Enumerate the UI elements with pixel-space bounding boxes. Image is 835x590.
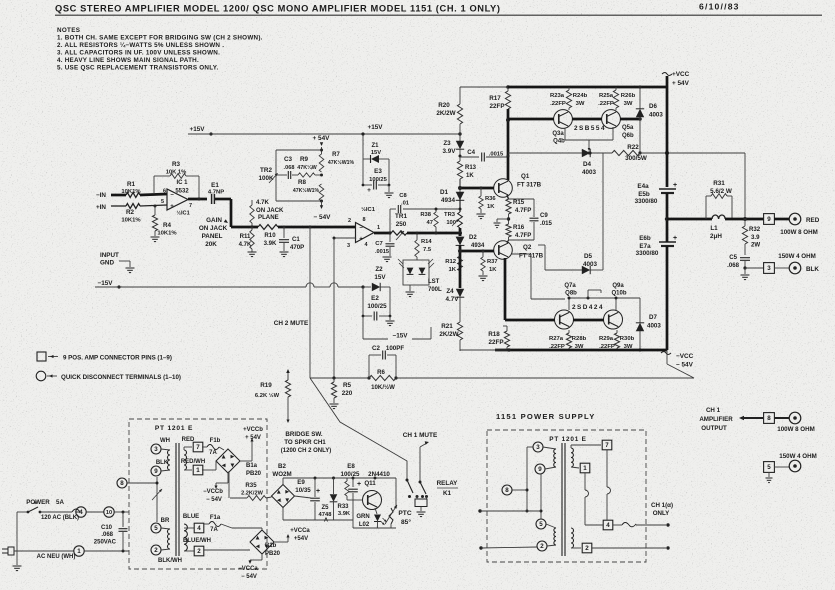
svg-text:BLUE: BLUE [183, 514, 199, 520]
svg-text:D7: D7 [649, 314, 657, 321]
svg-text:.015: .015 [540, 220, 552, 227]
svg-text:WO2M: WO2M [272, 471, 291, 478]
wire b1a+ [240, 460, 252, 462]
svg-text:+VCCb: +VCCb [243, 427, 263, 433]
wire 54v-down [320, 142, 323, 146]
svg-text:+15V: +15V [368, 124, 384, 131]
svg-text:Q7a: Q7a [564, 283, 576, 289]
wire r19-vcc [287, 424, 289, 428]
wire 1-b1a [202, 469, 216, 471]
secondary coil 1 [184, 450, 187, 470]
svg-text:+ 54V: + 54V [245, 435, 261, 441]
svg-text:QUICK DISCONNECT TERMINALS (1–: QUICK DISCONNECT TERMINALS (1–10) [61, 374, 181, 381]
resistor R14 [416, 233, 418, 240]
svg-text:R24b: R24b [573, 93, 588, 99]
svg-text:1: 1 [377, 225, 380, 231]
svg-text:8: 8 [120, 480, 124, 487]
svg-text:PTC: PTC [398, 510, 411, 517]
svg-text:Q2: Q2 [523, 244, 532, 251]
svg-text:Q6b: Q6b [622, 133, 634, 139]
svg-text:3300/80: 3300/80 [636, 250, 659, 257]
svg-text:1K: 1K [448, 267, 456, 273]
wire right-col [744, 153, 746, 219]
wire q1-r18 col [502, 265, 504, 267]
svg-text:2SB554: 2SB554 [574, 125, 606, 132]
relay box K1 [415, 499, 427, 507]
svg-text:.068: .068 [101, 532, 113, 538]
ps wire 5-coil [546, 524, 556, 528]
wire gain-r10 [231, 226, 258, 229]
ps wire 9-coil [545, 467, 556, 469]
resistor R29a-R30b [616, 330, 618, 333]
resistor R1 [126, 193, 140, 198]
plug ground [16, 551, 18, 565]
svg-text:E9: E9 [297, 479, 305, 486]
wire 2-coil [161, 549, 170, 550]
ground e2 [389, 316, 391, 320]
svg-text:3. ALL CAPACITORS IN UF. 100V: 3. ALL CAPACITORS IN UF. 100V UNLESS SHO… [57, 50, 220, 57]
svg-text:R14: R14 [421, 239, 432, 245]
wire 8-circ [774, 417, 789, 419]
svg-text:QSC STEREO AMPLIFIER MODEL 120: QSC STEREO AMPLIFIER MODEL 1200/ QSC MON… [55, 4, 501, 14]
svg-text:4. HEAVY LINE SHOWS MAIN SIGNA: 4. HEAVY LINE SHOWS MAIN SIGNAL PATH. [57, 57, 199, 64]
svg-text:6.2K ½W: 6.2K ½W [255, 392, 280, 399]
output node heavy [665, 217, 669, 221]
svg-text:100K: 100K [258, 175, 274, 182]
svg-text:R10: R10 [264, 232, 276, 239]
svg-text:R36: R36 [485, 196, 496, 202]
wire q1-emitter [507, 195, 509, 199]
transistor Q1 [494, 179, 513, 198]
node r4 [154, 205, 157, 208]
svg-text:INPUT: INPUT [100, 252, 119, 259]
svg-text:CH 1(α): CH 1(α) [651, 502, 673, 509]
svg-text:LST: LST [428, 279, 440, 285]
ps terminal 5 [536, 519, 546, 529]
svg-text:120 AC (BLK): 120 AC (BLK) [41, 515, 79, 521]
svg-text:2: 2 [154, 547, 158, 554]
svg-text:.22FP: .22FP [598, 101, 614, 107]
svg-text:R37: R37 [487, 259, 498, 265]
+15V rail [188, 133, 460, 135]
primary coil 2 [168, 529, 171, 549]
svg-text:9: 9 [154, 468, 158, 475]
ground r4 [154, 231, 156, 236]
svg-text:4003: 4003 [649, 112, 663, 119]
svg-text:3300/80: 3300/80 [635, 198, 658, 205]
wire opamp2-out [374, 232, 391, 235]
ps 9-5 link [540, 474, 542, 519]
svg-text:700L: 700L [428, 287, 442, 293]
svg-text:R23a: R23a [550, 93, 565, 99]
diag mute-relay [310, 378, 407, 479]
svg-text:E7a: E7a [639, 243, 651, 250]
svg-text:3: 3 [347, 243, 350, 249]
legend terminal circle [36, 371, 46, 381]
terminal 3 [151, 444, 161, 454]
resistor R23a-R24b [568, 87, 570, 90]
wire z3-r13 [459, 149, 461, 161]
svg-text:TO SPKR CH1: TO SPKR CH1 [284, 439, 326, 446]
wire tr1-out [407, 232, 460, 235]
svg-text:C2: C2 [372, 345, 380, 352]
svg-text:PANEL: PANEL [202, 233, 223, 240]
pin 8 box [764, 413, 775, 424]
svg-text:R13: R13 [465, 165, 477, 171]
resistor R4 [154, 206, 156, 215]
svg-text:4934: 4934 [441, 197, 456, 204]
svg-text:1K: 1K [487, 204, 495, 210]
r5 column wire [333, 238, 335, 378]
ps terminal 8 [502, 485, 512, 495]
resistor R38 [435, 209, 437, 212]
svg-text:Z3: Z3 [443, 140, 451, 147]
power switch [17, 511, 27, 513]
resistor R10 [258, 225, 278, 230]
svg-text:AMPLIFIER: AMPLIFIER [699, 416, 733, 423]
subckt top line [283, 477, 396, 479]
-54V label [321, 201, 323, 206]
svg-text:.22FP: .22FP [550, 101, 566, 107]
op-amp IC1a [167, 189, 188, 210]
svg-text:L02: L02 [359, 522, 370, 528]
svg-text:5: 5 [154, 525, 158, 532]
wire 9-coil [161, 470, 170, 471]
svg-text:PT 1201 E: PT 1201 E [549, 436, 586, 443]
wire r35-left [228, 471, 230, 498]
wire +in [111, 205, 126, 207]
svg-text:E3: E3 [374, 168, 382, 175]
diode D4 [582, 149, 590, 157]
ps left links [527, 446, 533, 448]
ps wire 8 [512, 489, 527, 491]
svg-text:R35: R35 [245, 482, 257, 489]
-VCC rail heavy [495, 349, 667, 352]
terminal 9 [151, 466, 161, 476]
svg-text:RED: RED [806, 217, 820, 224]
svg-text:E5b: E5b [638, 191, 650, 198]
diode D6 [639, 87, 641, 109]
svg-text:−VCCa: −VCCa [238, 566, 258, 572]
svg-text:− 54V: − 54V [676, 362, 694, 369]
wire fb-down [198, 176, 200, 198]
pin 7 box [183, 447, 185, 450]
resistor 4.7K jack [251, 200, 253, 205]
svg-text:47K½W1%: 47K½W1% [328, 159, 355, 166]
relay contact 1 [406, 479, 409, 482]
svg-text:4003: 4003 [647, 323, 661, 330]
svg-text:Q8b: Q8b [565, 291, 577, 297]
svg-text:9: 9 [538, 466, 542, 473]
zener Z2 [372, 283, 380, 291]
svg-text:D2: D2 [469, 235, 477, 241]
svg-text:NOTES: NOTES [57, 27, 80, 34]
ps wire 7-4 [606, 450, 608, 487]
svg-text:4003: 4003 [583, 261, 598, 268]
relay contact 2 [419, 481, 422, 484]
svg-text:B1b: B1b [265, 543, 277, 549]
svg-text:ON JACK: ON JACK [199, 225, 228, 232]
wire q3q5 link [564, 128, 566, 140]
-15V seg [363, 338, 388, 340]
svg-text:R6: R6 [377, 369, 385, 376]
svg-text:BRIDGE SW.: BRIDGE SW. [285, 431, 322, 438]
resistor R32 [744, 219, 746, 226]
dashed box PT1201E [129, 419, 267, 569]
wire 5-coil [161, 528, 170, 529]
svg-text:ON JACK: ON JACK [256, 207, 284, 214]
resistor R7 [319, 154, 324, 172]
svg-text:R4: R4 [163, 222, 172, 229]
wire b1b+ [274, 541, 288, 543]
svg-text:5. USE QSC REPLACEMENT TRANSIS: 5. USE QSC REPLACEMENT TRANSISTORS ONLY. [57, 65, 219, 72]
svg-text:100PF: 100PF [386, 345, 404, 352]
wire f1a-b1b [232, 527, 262, 529]
svg-text:½IC1: ½IC1 [361, 206, 376, 213]
ground pin5 [768, 472, 770, 477]
svg-text:100/25: 100/25 [367, 303, 387, 310]
svg-text:.01: .01 [401, 201, 410, 207]
svg-text:7A: 7A [209, 450, 217, 456]
svg-text:D4: D4 [583, 161, 592, 168]
svg-text:.068: .068 [284, 165, 295, 171]
svg-text:15V: 15V [371, 150, 381, 156]
svg-text:1K: 1K [489, 267, 497, 273]
svg-text:10K/½W: 10K/½W [371, 384, 395, 391]
ac plug [8, 547, 14, 555]
wire r18-bot [494, 350, 496, 351]
svg-text:R5: R5 [343, 382, 352, 389]
svg-text:CH 1: CH 1 [706, 407, 721, 414]
bridge B1b [250, 530, 274, 554]
terminal out8 [789, 412, 801, 424]
svg-text:(1200 CH 2 ONLY): (1200 CH 2 ONLY) [281, 448, 331, 454]
wire q2-collector [504, 258, 507, 320]
svg-text:4.7NP: 4.7NP [208, 190, 224, 196]
wire b1a- [227, 473, 229, 483]
wire q1-base heavy [460, 187, 494, 190]
wire drv heavy [508, 118, 554, 121]
wire r20-z3 [459, 124, 461, 141]
svg-text:4934: 4934 [471, 243, 485, 249]
wire r17-q1 heavy [507, 109, 510, 180]
wire r2-opamp [140, 205, 167, 206]
svg-text:1151 POWER SUPPLY: 1151 POWER SUPPLY [496, 412, 595, 421]
wire relay feed [416, 497, 418, 500]
svg-text:+: + [367, 187, 371, 194]
node mid emitters [508, 214, 510, 224]
svg-text:9 POS. AMP CONNECTOR PINS (1–9: 9 POS. AMP CONNECTOR PINS (1–9) [63, 355, 172, 362]
svg-text:5: 5 [767, 464, 771, 471]
svg-text:7.5: 7.5 [423, 247, 432, 253]
resistor R27a-R28b [568, 330, 570, 333]
svg-text:10: 10 [106, 510, 112, 516]
resistor R20 [457, 104, 462, 124]
svg-text:BLK: BLK [806, 266, 819, 273]
wire d1-d2 heavy [459, 233, 462, 236]
ps out fuse [613, 524, 622, 526]
zener Z5 [333, 478, 335, 494]
svg-text:R11: R11 [240, 233, 251, 240]
wire 5-circ [774, 466, 789, 468]
svg-text:4003: 4003 [582, 169, 597, 176]
ps coil p1 [554, 449, 556, 467]
wire r19-top [287, 371, 289, 380]
resistor R5 [332, 376, 335, 379]
wire fb-up [153, 176, 155, 191]
wire 7-f1b [201, 446, 203, 448]
svg-text:BR: BR [161, 518, 170, 524]
wire r22-right [640, 152, 745, 154]
wire r21-line [460, 349, 509, 351]
svg-text:E4a: E4a [637, 183, 649, 190]
svg-text:K1: K1 [443, 490, 452, 497]
wire vcc-col heavy [666, 87, 669, 187]
wire 1-box [84, 550, 129, 552]
wire 10-box [114, 511, 129, 513]
svg-text:BLK: BLK [156, 460, 169, 466]
svg-text:+: + [170, 204, 174, 210]
svg-text:3: 3 [767, 265, 771, 272]
svg-text:Z2: Z2 [375, 266, 383, 273]
ground r37 [482, 271, 484, 275]
transistor Q2 [494, 241, 513, 260]
wire r16-q2 [508, 237, 510, 240]
svg-text:300/5W: 300/5W [625, 155, 647, 162]
wire 9-red heavy [774, 218, 789, 221]
wire 2-b1b [204, 549, 250, 551]
svg-text:C10: C10 [101, 525, 113, 531]
wire c4-col [530, 155, 532, 157]
svg-text:−: − [359, 226, 363, 232]
svg-text:TR2: TR2 [260, 167, 272, 174]
terminal 1 [74, 546, 84, 556]
svg-text:C5: C5 [729, 254, 737, 261]
svg-text:9: 9 [767, 216, 771, 223]
svg-text:C3: C3 [284, 156, 293, 163]
svg-text:R29a: R29a [599, 336, 614, 342]
resistor R13 [457, 161, 462, 179]
svg-text:7: 7 [605, 442, 609, 449]
svg-text:2: 2 [585, 545, 589, 552]
svg-text:2. ALL RESISTORS ¼−WATTS 5% UN: 2. ALL RESISTORS ¼−WATTS 5% UNLESS SHOWN… [57, 41, 224, 49]
opto LST700L [403, 260, 429, 285]
terminal 4 [76, 511, 80, 513]
ch1 mute arrow [419, 447, 421, 481]
pot TR3 [458, 212, 463, 228]
svg-text:100W 8 OHM: 100W 8 OHM [777, 426, 814, 433]
svg-text:4.7V: 4.7V [446, 296, 460, 303]
svg-text:R32: R32 [749, 226, 761, 233]
PTC symbol [389, 508, 393, 524]
svg-text:20K: 20K [205, 241, 217, 248]
svg-text:− 54V: − 54V [206, 497, 222, 503]
svg-text:7A: 7A [210, 527, 218, 533]
svg-text:150W 4 OHM: 150W 4 OHM [779, 453, 816, 460]
diag -vcc corner [667, 364, 694, 378]
ps in line a [478, 509, 481, 512]
svg-text:2N4410: 2N4410 [368, 471, 390, 478]
ps sec coil 2 [571, 528, 574, 548]
svg-text:4: 4 [606, 522, 610, 529]
svg-text:POWER: POWER [26, 499, 50, 506]
svg-text:C7: C7 [375, 241, 382, 247]
svg-text:RED/WH: RED/WH [181, 459, 205, 465]
svg-text:D1: D1 [440, 189, 449, 196]
svg-text:150W 4 OHM: 150W 4 OHM [778, 253, 815, 260]
svg-text:100/25: 100/25 [369, 177, 388, 183]
svg-text:R26b: R26b [621, 93, 636, 99]
svg-text:85°: 85° [401, 518, 411, 526]
svg-text:PT 1201 E: PT 1201 E [155, 425, 193, 432]
ps pin1 [571, 467, 579, 468]
capacitor C9 [509, 198, 535, 200]
-15V rail [95, 286, 306, 288]
svg-text:10K1%: 10K1% [157, 231, 177, 237]
svg-text:8: 8 [505, 487, 509, 494]
capacitor E8 [352, 478, 354, 487]
resistor R12 [458, 256, 463, 271]
xfmr core [175, 443, 177, 556]
resistor R33 [345, 481, 349, 496]
svg-text:R16: R16 [513, 224, 525, 231]
wire 8-tap [127, 482, 157, 484]
transistor Q5a-Q6b [602, 110, 621, 129]
pin 4 box [183, 524, 185, 528]
inductor L1 [712, 215, 725, 219]
top rail heavy [508, 86, 667, 89]
wire e6-vcc heavy [666, 246, 669, 350]
svg-text:+IN: +IN [96, 204, 106, 211]
svg-text:.0015: .0015 [375, 249, 389, 255]
svg-text:Q11: Q11 [364, 480, 376, 487]
resistor R22 [612, 150, 640, 155]
wire z1-e3 [379, 158, 389, 160]
svg-text:2: 2 [197, 548, 201, 555]
svg-text:+VCCa: +VCCa [290, 528, 310, 534]
input gnd wire [119, 260, 130, 262]
svg-text:5532: 5532 [175, 189, 189, 195]
ground r5 [330, 403, 339, 405]
terminal out5 [789, 460, 801, 472]
ps wire 2-coil [547, 545, 556, 546]
wire lst [416, 257, 418, 260]
svg-text:ONLY: ONLY [653, 510, 670, 517]
svg-text:R7: R7 [332, 152, 340, 158]
svg-text:+VCC: +VCC [672, 71, 690, 78]
svg-text:BLK/WH: BLK/WH [158, 558, 182, 564]
tr2 loop [276, 149, 322, 151]
led L02 [375, 508, 377, 514]
ps terminal 2 [537, 541, 547, 551]
svg-text:PB20: PB20 [246, 471, 262, 477]
svg-text:R38: R38 [420, 212, 431, 218]
svg-text:R21: R21 [441, 323, 453, 330]
wire drv2 heavy [505, 319, 555, 322]
svg-text:2SD424: 2SD424 [572, 304, 604, 311]
subckt bottom [283, 519, 353, 521]
dashed box 1151 [487, 430, 646, 562]
resistor R21 [457, 322, 462, 340]
pin 1 box [184, 469, 192, 471]
svg-text:−VCCb: −VCCb [203, 489, 223, 495]
svg-text:10/35: 10/35 [295, 487, 311, 494]
svg-text:WH: WH [160, 438, 170, 444]
wire r13-d1 [459, 179, 461, 192]
svg-text:F1b: F1b [210, 438, 221, 444]
svg-text:Q3a: Q3a [552, 131, 564, 137]
ps sec coil 1 [571, 448, 573, 467]
